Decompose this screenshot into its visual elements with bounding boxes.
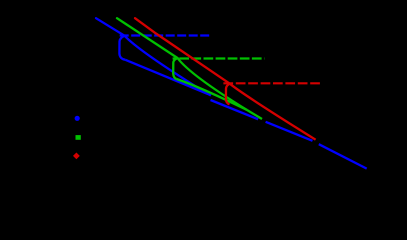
blue curve: main descending line — [96, 18, 125, 36]
blue loop upper edge — [125, 36, 209, 94]
green loop upper edge — [178, 58, 248, 110]
red tail (upper edge continues) — [230, 84, 316, 140]
green loop hook — [173, 58, 177, 79]
blue loop lower edge — [125, 60, 211, 96]
red dashed horizontal — [223, 82, 320, 84]
legend marker: red diamond — [73, 153, 80, 160]
blue dashed tail segment 3 — [319, 144, 367, 168]
blue loop hook — [119, 36, 125, 60]
green tail — [247, 110, 262, 119]
green dashed horizontal — [173, 57, 265, 59]
red curve: main descending line — [135, 18, 230, 84]
blue dashed tail segment 2 — [266, 122, 313, 141]
legend marker: green square — [76, 135, 81, 140]
red loop hook — [226, 84, 230, 105]
blue dashed tail segment 1 — [211, 100, 259, 119]
green curve: main descending line — [117, 18, 178, 58]
blue dashed horizontal — [120, 34, 211, 36]
legend marker: blue circle — [75, 116, 80, 121]
green loop lower edge — [177, 79, 247, 110]
